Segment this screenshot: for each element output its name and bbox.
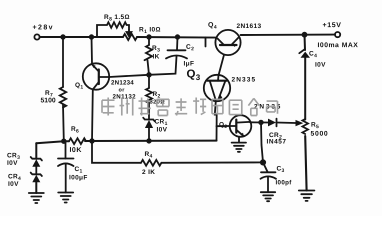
svg-text:+15V: +15V — [323, 22, 342, 29]
svg-text:I00μF: I00μF — [69, 174, 88, 181]
diode CR3 10V zener — [35, 143, 37, 159]
watermark pseudo-hanzi row — [102, 98, 278, 116]
capacitor C4 — [299, 50, 304, 54]
svg-text:C4: C4 — [309, 51, 317, 60]
svg-text:Q4: Q4 — [208, 22, 217, 31]
junction node K — [259, 121, 263, 125]
node +28V input terminal — [34, 34, 39, 39]
ground (C3) — [261, 192, 275, 201]
transistor Q3 circle — [204, 75, 230, 101]
svg-text:R2: R2 — [153, 91, 161, 100]
wire R7 to rail — [62, 104, 65, 141]
svg-text:2N335: 2N335 — [232, 77, 257, 84]
svg-text:2N1234: 2N1234 — [111, 79, 134, 86]
junction dot A (R7 branch) — [61, 35, 65, 39]
svg-text:I0V: I0V — [156, 126, 167, 133]
wire Q4 base down to Q3 — [219, 55, 225, 76]
wire top rail right — [241, 34, 335, 36]
ground (R5) — [299, 191, 315, 201]
svg-text:IK: IK — [153, 53, 160, 60]
svg-text:Q1: Q1 — [75, 82, 84, 91]
Q3 internals — [208, 80, 227, 82]
diode CR4 10V zener — [35, 167, 37, 175]
resistor R3 1K — [148, 37, 150, 45]
resistor R6 10K — [69, 138, 86, 144]
svg-text:C3: C3 — [276, 166, 284, 175]
svg-text:R4: R4 — [144, 151, 152, 160]
resistor R8 bypass loop — [97, 22, 129, 37]
junction dot H — [90, 139, 94, 143]
ground (CR4) — [35, 182, 37, 193]
svg-text:R3: R3 — [152, 45, 160, 54]
ground (Q2) — [232, 143, 246, 152]
svg-text:Q3: Q3 — [187, 68, 201, 82]
svg-text:+28v: +28v — [33, 24, 54, 31]
svg-text:Q2: Q2 — [219, 122, 228, 131]
Q1 internals — [98, 70, 100, 85]
wire rail after R1 — [137, 36, 216, 39]
wire CR2 to wiper — [277, 122, 296, 125]
arrow R8 tap into R1 — [127, 30, 132, 36]
transistor Q2 circle — [230, 115, 252, 137]
wire Q1 collector — [91, 37, 94, 64]
svg-text:R6: R6 — [71, 126, 79, 135]
transistor Q1 circle — [83, 63, 109, 89]
stub near Q4 — [205, 38, 207, 47]
resistor R5 5000 pot — [302, 119, 308, 134]
svg-text:I00ma MAX: I00ma MAX — [318, 42, 359, 49]
wire +15V branch down — [304, 35, 307, 50]
svg-text:I0V: I0V — [7, 160, 18, 167]
arrow R5 wiper — [296, 120, 304, 126]
svg-text:C2: C2 — [186, 44, 194, 53]
svg-text:2 IK: 2 IK — [142, 169, 155, 176]
diode CR2 1N457 — [268, 119, 276, 127]
svg-text:2N1613: 2N1613 — [237, 23, 262, 30]
svg-text:IN457: IN457 — [266, 139, 286, 146]
junction node F — [147, 73, 151, 77]
capacitor C2 1uF — [176, 37, 179, 50]
transistor Q4 circle — [215, 30, 240, 55]
wire top rail left — [40, 36, 123, 38]
junction dot I — [147, 139, 151, 143]
Q2 internals — [235, 120, 237, 133]
svg-text:C1: C1 — [74, 166, 82, 175]
junction dot C (R3 branch) — [147, 35, 151, 39]
resistor R1 10ohm (on rail) — [123, 34, 137, 40]
wire K down to node J — [261, 122, 263, 162]
wire Q2 base stub — [217, 125, 230, 127]
wire Q2 emitter — [238, 137, 240, 143]
svg-text:I0V: I0V — [315, 62, 326, 69]
Q4 internals — [220, 44, 237, 46]
junction dot E (+15V branch) — [303, 33, 307, 37]
junction dot B (Q1 collector) — [90, 35, 94, 39]
node +15V output terminal — [335, 32, 340, 37]
svg-text:I0V: I0V — [8, 181, 19, 188]
resistor R2 820 — [146, 88, 152, 103]
svg-text:R1 I0Ω: R1 I0Ω — [139, 26, 161, 35]
wire Q2 collector to CR2 — [250, 121, 268, 123]
capacitor C3 100pf — [263, 162, 268, 171]
wire Q1 base to node F — [109, 75, 149, 77]
diode CR1 10V zener — [148, 103, 150, 120]
svg-text:5000: 5000 — [310, 131, 328, 138]
svg-text:I0K: I0K — [69, 147, 81, 154]
wire R7 branch upper — [62, 37, 64, 87]
wire R4 to C3 node — [161, 161, 263, 163]
wire Q1 emitter down — [91, 90, 94, 141]
svg-text:I00pf: I00pf — [275, 179, 292, 186]
ground (C1) — [58, 193, 73, 203]
junction dot G — [62, 139, 66, 143]
resistor R7 5100 — [60, 87, 66, 107]
svg-text:IμF: IμF — [184, 60, 195, 67]
resistor R4 2.1K — [141, 160, 161, 166]
svg-text:R5: R5 — [311, 122, 319, 131]
junction node J — [261, 160, 265, 164]
wire Q3 emitter down — [215, 101, 217, 141]
wire mid rail — [36, 141, 216, 144]
junction dot D (C2 branch) — [176, 35, 180, 39]
svg-text:5100: 5100 — [41, 97, 56, 104]
capacitor C1 100uF — [65, 141, 67, 158]
wire R4 loop — [92, 141, 141, 163]
